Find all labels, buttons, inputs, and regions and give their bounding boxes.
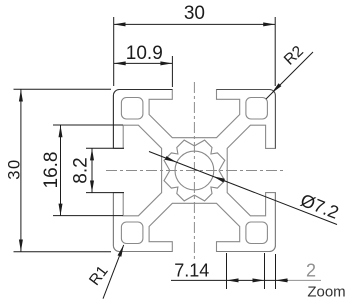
svg-text:2: 2 — [306, 261, 316, 281]
svg-text:30: 30 — [184, 3, 205, 24]
svg-text:8.2: 8.2 — [71, 157, 92, 183]
svg-text:10.9: 10.9 — [126, 43, 163, 64]
svg-text:Zoom: Zoom — [307, 284, 345, 301]
svg-text:7.14: 7.14 — [174, 261, 209, 281]
svg-text:30: 30 — [6, 158, 24, 179]
svg-text:16.8: 16.8 — [41, 152, 62, 189]
